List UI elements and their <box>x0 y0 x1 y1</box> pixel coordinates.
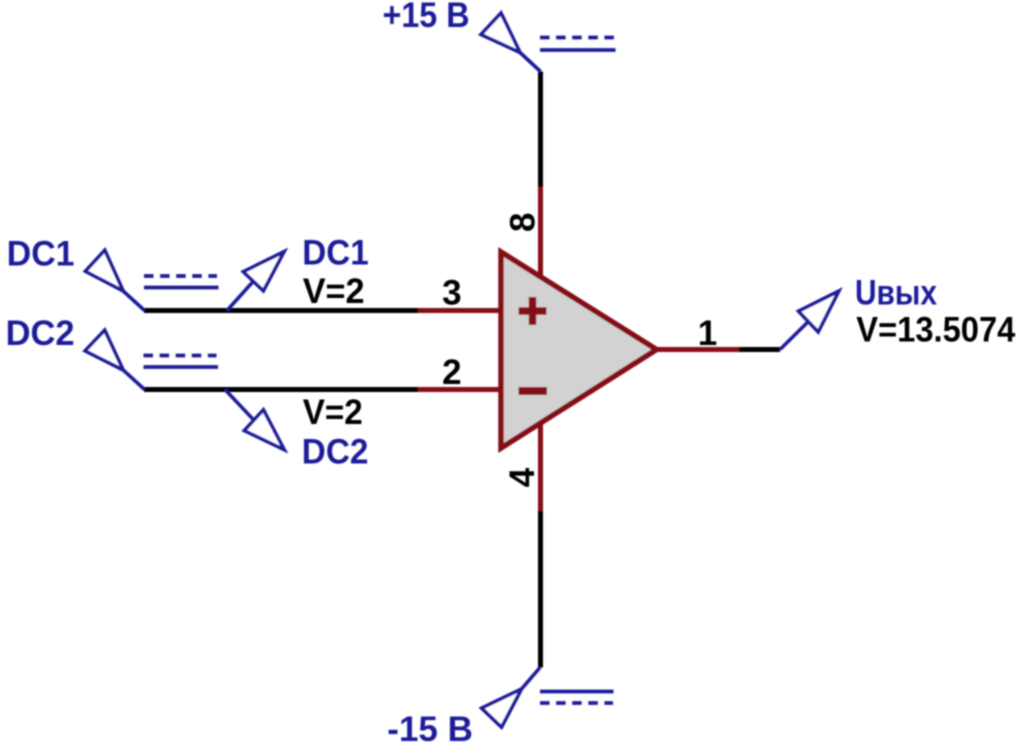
svg-text:DC1: DC1 <box>7 234 75 273</box>
svg-text:1: 1 <box>698 314 717 353</box>
svg-text:+15 В: +15 В <box>383 0 470 35</box>
wire: output to Uvyh terminal <box>739 347 780 352</box>
output flag pennant <box>799 291 839 332</box>
op-amp U1 body <box>501 252 657 448</box>
battery V1 solid plate <box>540 48 616 52</box>
DC1 terminal pennant <box>85 250 123 291</box>
svg-text:3: 3 <box>442 273 461 312</box>
-15V terminal tail <box>522 668 541 690</box>
battery DC1 solid plate <box>144 286 219 290</box>
wire: DC1 terminal to pin 3 <box>144 308 420 313</box>
svg-text:V=13.5074: V=13.5074 <box>856 311 1015 350</box>
battery V2 solid plate <box>540 690 614 694</box>
svg-text:8: 8 <box>503 213 542 232</box>
pin 8 stub (V+) <box>538 187 543 276</box>
DC2 terminal tail <box>123 370 144 390</box>
battery V1 dashed plate <box>540 36 614 40</box>
battery DC2 solid plate <box>144 365 219 369</box>
svg-text:DC2: DC2 <box>302 433 369 472</box>
+15V terminal tail <box>520 53 541 72</box>
pin 1 stub (output) <box>654 347 739 352</box>
svg-text:Uвых: Uвых <box>855 273 937 312</box>
wire: +15V rail down to pin 8 <box>538 72 543 190</box>
pin 2 stub <box>418 387 503 392</box>
svg-text:DC2: DC2 <box>6 314 75 353</box>
svg-text:V=2: V=2 <box>303 393 363 432</box>
DC1 terminal tail <box>123 291 144 311</box>
+15V terminal pennant <box>481 13 520 53</box>
svg-text:2: 2 <box>442 353 461 392</box>
pin 3 stub <box>418 308 503 313</box>
DC2 terminal pennant <box>85 330 123 370</box>
svg-text:V=2: V=2 <box>303 272 365 311</box>
output flag tail <box>780 322 808 350</box>
battery DC1 dashed plate <box>144 274 217 278</box>
svg-text:4: 4 <box>503 467 542 487</box>
svg-text:DC1: DC1 <box>302 234 369 273</box>
DC2 name flag pennant <box>244 410 284 450</box>
battery DC2 dashed plate <box>144 354 217 358</box>
svg-text:-15 В: -15 В <box>387 710 473 749</box>
battery V2 dashed plate <box>540 701 613 705</box>
pin 4 stub (V-) <box>538 424 543 513</box>
wire: pin 4 down to -15V terminal <box>538 511 543 668</box>
op-amp inverting - marker <box>519 387 548 395</box>
-15V terminal pennant <box>482 689 522 727</box>
DC1 name flag tail <box>227 281 253 310</box>
DC1 name flag pennant <box>243 252 284 291</box>
wire: DC2 terminal to pin 2 <box>144 387 420 392</box>
op-amp noninverting + marker <box>519 297 547 325</box>
DC2 name flag tail <box>225 390 254 421</box>
